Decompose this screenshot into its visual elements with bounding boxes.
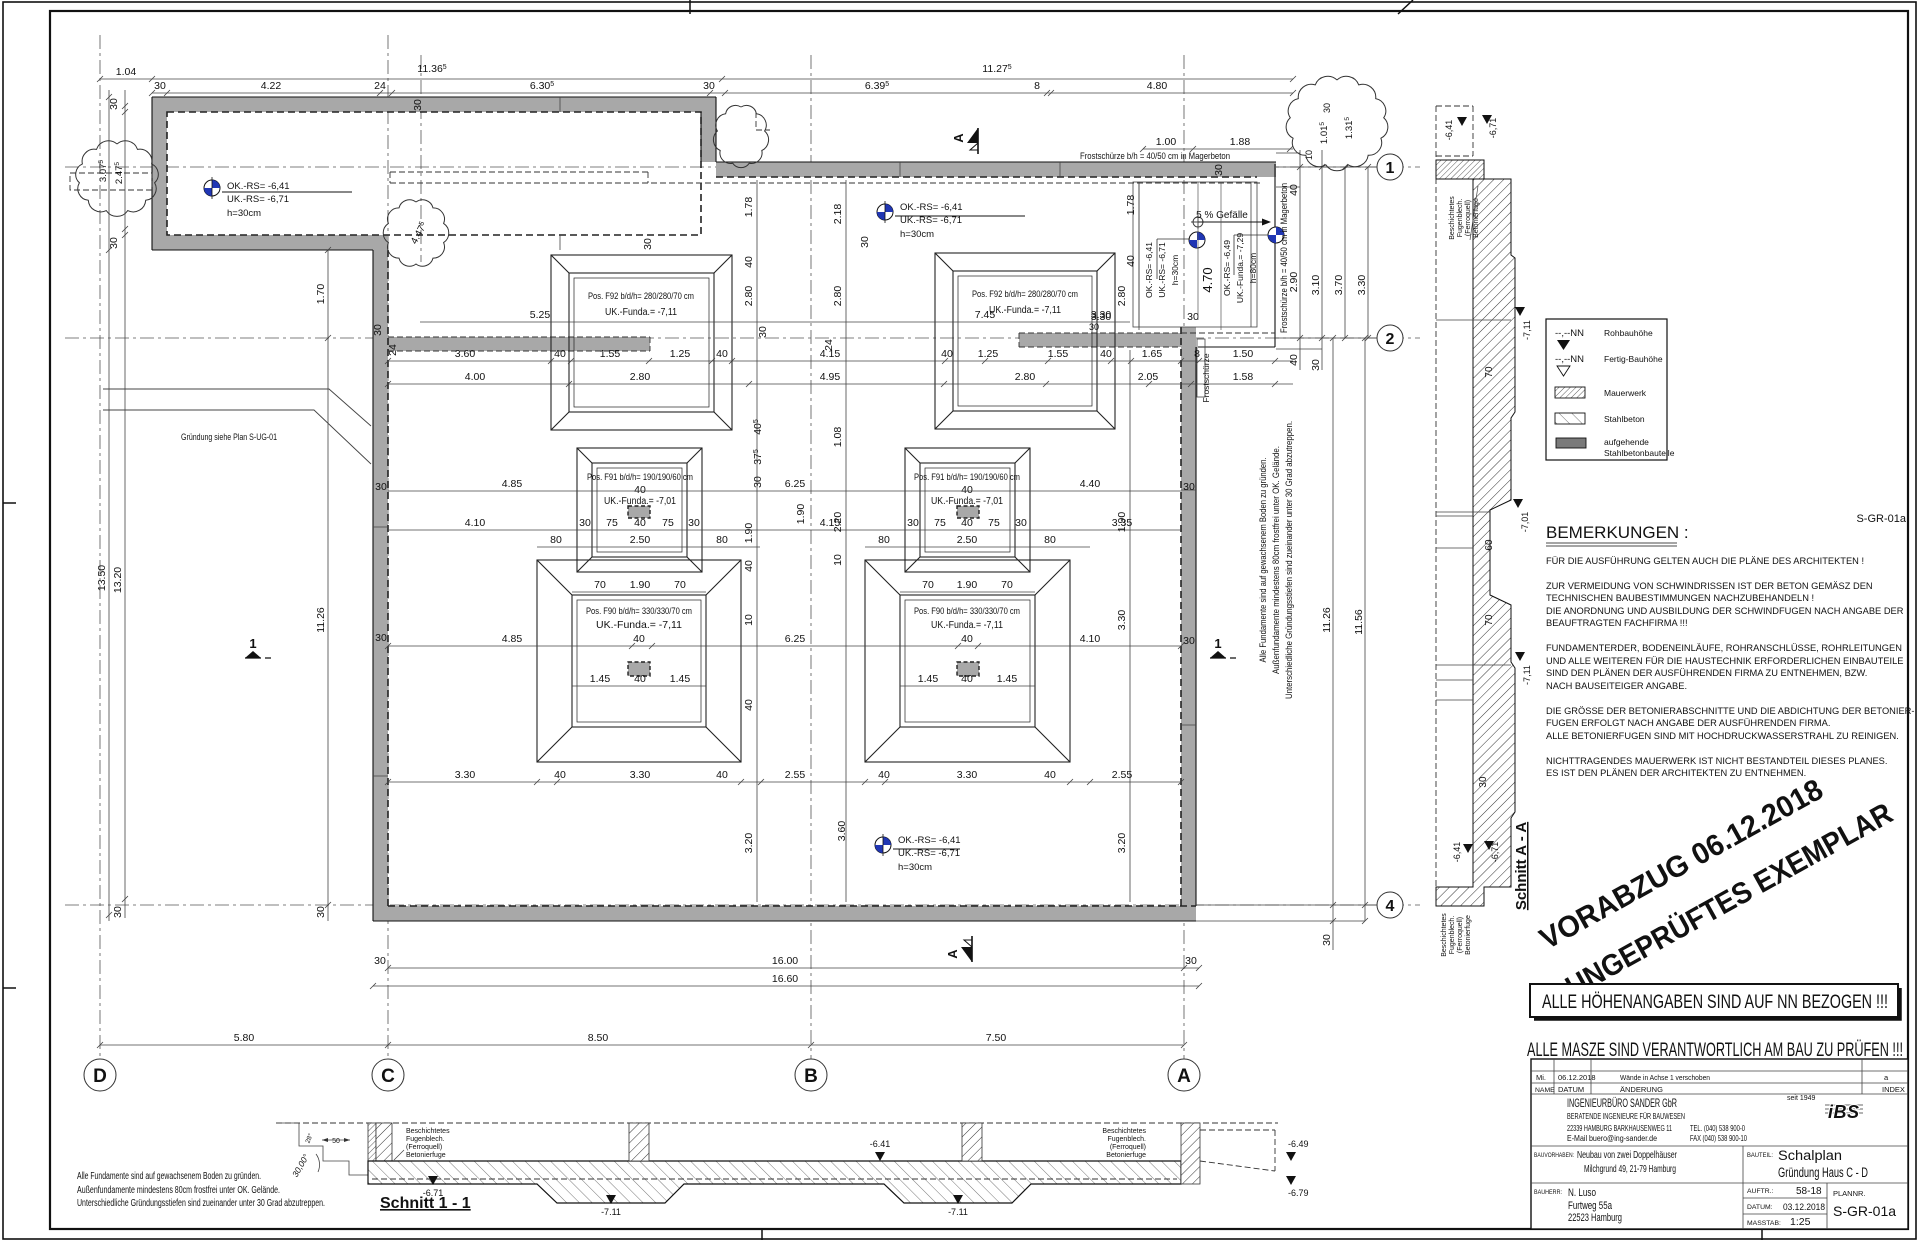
gully symbol [1191,215,1205,229]
svg-text:24: 24 [374,80,386,92]
svg-text:10: 10 [743,614,755,626]
dim labels left stack [108,98,120,110]
svg-text:seit 1949: seit 1949 [1787,1095,1816,1102]
svg-text:ALLE BETONIERFUGEN SIND MIT HO: ALLE BETONIERFUGEN SIND MIT HOCHDRUCKWAS… [1546,731,1899,741]
right of plan dim stack verticals [1299,150,1301,370]
svg-text:2.80: 2.80 [1116,286,1128,307]
row ticks 384 [385,381,1278,387]
section A-A left wall notches [1436,516,1473,700]
in-plan dim row y384 [388,383,1293,385]
svg-text:D: D [93,1066,107,1087]
svg-text:UK.-RS= -6,71: UK.-RS= -6,71 [1157,242,1167,298]
svg-text:1.50: 1.50 [1233,348,1254,360]
axis 4 horizontal [65,904,1420,906]
bottom dim 16.60 [373,985,1199,987]
svg-text:Betonierfuge: Betonierfuge [1106,1152,1146,1159]
svg-text:1.90: 1.90 [1116,512,1128,533]
frostschuerze note rotated right [1279,183,1290,333]
svg-text:Gründung Haus C - D: Gründung Haus C - D [1778,1165,1868,1180]
column F91 right [957,506,979,518]
svg-text:30: 30 [412,99,424,111]
svg-text:7.45: 7.45 [975,309,996,321]
svg-text:A: A [1177,1066,1191,1087]
svg-text:4.95: 4.95 [820,371,841,383]
svg-text:Pos. F90 b/d/h= 330/330/70 cm: Pos. F90 b/d/h= 330/330/70 cm [586,606,692,617]
svg-text:75: 75 [988,517,1000,529]
svg-text:75: 75 [934,517,946,529]
svg-text:PLANNR.: PLANNR. [1833,1189,1866,1198]
svg-text:30: 30 [1478,776,1489,788]
svg-text:5 % Gefälle: 5 % Gefälle [1196,210,1248,221]
svg-text:UK.-Funda.= -7,11: UK.-Funda.= -7,11 [605,307,677,318]
svg-text:Pos. F91 b/d/h= 190/190/60 cm: Pos. F91 b/d/h= 190/190/60 cm [587,472,693,483]
column F91 left [628,506,650,518]
svg-text:UK.-RS= -6,71: UK.-RS= -6,71 [227,194,289,205]
svg-text:FÜR DIE AUSFÜHRUNG GELTEN AUCH: FÜR DIE AUSFÜHRUNG GELTEN AUCH DIE PLÄNE… [1546,556,1864,566]
level text bay rotated 1 [1144,242,1154,298]
svg-text:-7.11: -7.11 [948,1207,968,1217]
axis circle 2 [1377,325,1403,351]
svg-text:30: 30 [579,517,591,529]
svg-text:10: 10 [832,554,844,566]
svg-text:30: 30 [1183,635,1195,647]
svg-text:1: 1 [1386,160,1395,177]
title block bauvorhaben row [1531,1146,1908,1183]
dim labels rotated column x846 [832,204,844,225]
top dim row 2 [152,92,1293,94]
svg-text:30: 30 [108,98,120,110]
axis A vertical [1183,55,1185,1062]
title block bottom rows [1743,1183,1827,1229]
svg-text:30: 30 [752,476,764,488]
title block frame [1531,1059,1908,1229]
svg-text:60: 60 [1484,539,1495,551]
svg-text:80: 80 [716,534,728,546]
svg-text:Unterschiedliche Gründungsstie: Unterschiedliche Gründungsstiefen sind z… [77,1198,325,1209]
svg-text:1:25: 1:25 [1790,1216,1811,1228]
svg-text:1.58: 1.58 [1233,371,1254,383]
ramp lines left [103,389,371,464]
svg-text:30: 30 [112,906,124,918]
svg-text:UND ALLE WEITEREN FÜR DIE HAUS: UND ALLE WEITEREN FÜR DIE HAUSTECHNIK ER… [1546,656,1903,666]
legend stahlbeton [1555,413,1585,424]
level text top middle [895,202,1025,240]
axis B vertical [810,55,812,1062]
svg-text:30: 30 [688,517,700,529]
svg-text:40: 40 [743,560,755,572]
bottom dim 16.00 [388,967,1199,969]
foundation strip dashed axis1 left [390,172,1261,183]
in-plan dim row y686 [572,685,706,687]
svg-text:24: 24 [823,339,835,351]
svg-text:C: C [381,1066,395,1087]
revision cloud 4.47 [383,200,449,266]
svg-text:40: 40 [554,769,566,781]
bottom axis dim 5.80 8.50 7.50 [100,1044,1184,1046]
section A-A top level labels [1444,120,1454,141]
svg-text:4.10: 4.10 [465,517,486,529]
svg-text:3.60: 3.60 [836,821,848,842]
section A-A dashed boundary [1436,106,1473,902]
svg-text:5.80: 5.80 [234,1032,255,1044]
svg-text:Fugenblech.: Fugenblech. [1457,199,1464,238]
axis 1 horizontal [65,166,1420,168]
svg-text:Betonierfuge: Betonierfuge [1465,915,1472,955]
svg-text:30: 30 [1015,517,1027,529]
schnitt11 slab bottom dashed inner line [372,1178,1177,1180]
bay dim line vertical [1138,182,1140,330]
svg-text:Pos. F92 b/d/h= 280/280/70 cm: Pos. F92 b/d/h= 280/280/70 cm [588,291,694,302]
schnitt11 interior wall stubs [629,1123,649,1161]
leader lines bay [1157,235,1268,279]
schnitt11 fugenblech note [406,1128,450,1159]
svg-text:03.12.2018: 03.12.2018 [1783,1202,1825,1213]
row ticks 361 [385,358,1278,364]
column F90 right [957,662,979,676]
legend box [1546,319,1667,460]
svg-text:DIE ANORDNUNG UND AUSBILDUNG D: DIE ANORDNUNG UND AUSBILDUNG DER SCHWIND… [1546,606,1904,616]
column F90 left [628,662,650,676]
svg-text:Betonierfuge: Betonierfuge [406,1152,446,1159]
svg-text:NAME: NAME [1535,1087,1555,1094]
svg-text:2.20: 2.20 [832,512,844,533]
svg-text:13.20: 13.20 [112,567,124,593]
section marker 1 left [245,636,271,658]
svg-text:11.56: 11.56 [1353,609,1365,635]
svg-text:40: 40 [716,769,728,781]
svg-text:1.90: 1.90 [957,579,978,591]
svg-text:6.25: 6.25 [785,478,806,490]
section marker 1 right [1210,636,1236,658]
svg-text:40: 40 [878,769,890,781]
svg-text:30: 30 [1310,359,1322,371]
dim labels garage wall small [372,324,384,336]
svg-text:4.80: 4.80 [1147,80,1168,92]
svg-text:11.275: 11.275 [982,63,1012,75]
schnitt11 level marks [428,1176,438,1185]
wall axis1 long [716,162,1276,177]
svg-text:30: 30 [1187,311,1199,323]
svg-text:3.20: 3.20 [1116,833,1128,854]
svg-text:1.45: 1.45 [670,673,691,685]
svg-text:h=80cm: h=80cm [1248,253,1258,283]
svg-text:1.90: 1.90 [630,579,651,591]
pad F90 right [865,560,1070,762]
svg-text:40: 40 [743,699,755,711]
svg-text:-7,11: -7,11 [1522,320,1532,340]
svg-text:2.80: 2.80 [743,286,755,307]
svg-text:30: 30 [374,955,386,967]
svg-text:h=30cm: h=30cm [1170,255,1180,285]
svg-text:75: 75 [662,517,674,529]
dim 4.70 rotated in bay [1200,267,1215,292]
survey marker bottom middle [875,834,891,856]
svg-text:OK.-RS= -6,49: OK.-RS= -6,49 [1222,240,1232,296]
pad F91 right [905,448,1030,572]
banner hoehenangaben box [1530,984,1898,1017]
axis circle C [372,1059,404,1091]
svg-text:Fugenblech.: Fugenblech. [1449,916,1456,955]
svg-text:40: 40 [743,256,755,268]
svg-text:70: 70 [674,579,686,591]
svg-text:16.00: 16.00 [772,955,798,967]
legend mauerwerk [1555,387,1585,398]
frostschuerze strip right wall [1197,339,1205,397]
svg-text:30: 30 [108,237,120,249]
in-plan vertical dim lines [756,180,758,902]
svg-text:2.80: 2.80 [832,286,844,307]
svg-text:-6,41: -6,41 [1452,842,1462,863]
schnitt11 step labels [304,1132,315,1144]
svg-text:UK.-Funda.= -7,29: UK.-Funda.= -7,29 [1235,233,1245,303]
section arrow A bottom [945,936,972,962]
svg-text:E-Mail buero@ing-sander.de: E-Mail buero@ing-sander.de [1567,1134,1657,1143]
dim labels rotated column x1130 [1116,286,1128,307]
svg-text:Unterschiedliche Gründungsstie: Unterschiedliche Gründungsstiefen sind z… [1284,421,1295,699]
wall axis 4 bottom [373,906,1196,921]
section A-A fugenblech note top [1449,196,1480,240]
svg-text:1.88: 1.88 [1230,136,1251,148]
svg-text:1.65: 1.65 [1142,348,1163,360]
svg-text:80: 80 [1044,534,1056,546]
svg-text:75: 75 [606,517,618,529]
dim labels right stacks [1288,184,1300,196]
svg-text:(Ferroquell): (Ferroquell) [1465,200,1472,236]
svg-text:2.50: 2.50 [630,534,651,546]
svg-text:3.60: 3.60 [455,348,476,360]
svg-text:ALLE MASZE SIND VERANTWORTLICH: ALLE MASZE SIND VERANTWORTLICH AM BAU ZU… [1527,1039,1903,1061]
schnitt11 top dashed line [276,1122,1278,1124]
svg-text:SIND DEN PLÄNEN DER AUSFÜHREND: SIND DEN PLÄNEN DER AUSFÜHRENDEN FIRMA Z… [1546,668,1867,678]
in-plan dim row y782 [388,781,1181,783]
wall interior dashed garage [167,112,701,235]
in-plan dim row y547 [537,546,760,548]
svg-text:1.45: 1.45 [997,673,1018,685]
svg-text:30: 30 [642,238,654,250]
svg-text:Pos. F91 b/d/h= 190/190/60 cm: Pos. F91 b/d/h= 190/190/60 cm [914,472,1020,483]
svg-text:30: 30 [703,80,715,92]
svg-text:BAUHERR:: BAUHERR: [1534,1189,1562,1196]
svg-text:1.25: 1.25 [978,348,999,360]
svg-text:16.60: 16.60 [772,973,798,985]
row ticks 646 [385,643,1184,649]
svg-text:5.25: 5.25 [530,309,551,321]
svg-text:30: 30 [154,80,166,92]
svg-text:1.55: 1.55 [600,348,621,360]
right stack horizontal ticks [1297,164,1371,924]
svg-text:BEMERKUNGEN :: BEMERKUNGEN : [1546,523,1689,542]
svg-text:Pos. F90 b/d/h= 330/330/70 cm: Pos. F90 b/d/h= 330/330/70 cm [914,606,1020,617]
svg-text:30: 30 [1185,955,1197,967]
dim labels near cloud top right [1304,150,1314,160]
svg-text:UK.-RS= -6,71: UK.-RS= -6,71 [900,215,962,226]
svg-text:UK.-Funda.= -7,01: UK.-Funda.= -7,01 [931,496,1003,507]
svg-text:Pos. F92 b/d/h= 280/280/70 cm: Pos. F92 b/d/h= 280/280/70 cm [972,289,1078,300]
svg-text:AUFTR.:: AUFTR.: [1747,1188,1774,1195]
wall outlines [152,97,1276,921]
svg-text:40: 40 [1100,348,1112,360]
svg-text:ALLE HÖHENANGABEN SIND AUF NN: ALLE HÖHENANGABEN SIND AUF NN BEZOGEN !!… [1542,991,1888,1013]
svg-text:Fertig-Bauhöhe: Fertig-Bauhöhe [1604,354,1663,364]
svg-text:Mi.: Mi. [1536,1073,1546,1082]
svg-text:ES IST DEN PLÄNEN DER ARCHITEK: ES IST DEN PLÄNEN DER ARCHITEKTEN ZU ENT… [1546,768,1806,778]
svg-text:30: 30 [375,481,387,493]
svg-text:DIE GRÖSSE DER BETONIERABSCHNI: DIE GRÖSSE DER BETONIERABSCHNITTE UND DI… [1546,706,1914,716]
schnitt11 slab hatched [368,1161,1181,1203]
svg-text:70: 70 [1484,366,1495,378]
fold tick bottom edge [761,1229,763,1240]
svg-text:ZUR VERMEIDUNG VON SCHWINDRISS: ZUR VERMEIDUNG VON SCHWINDRISSEN IST DER… [1546,581,1873,591]
svg-text:1: 1 [249,636,256,651]
svg-text:2.55: 2.55 [785,769,806,781]
in-plan dim row y491 [388,490,1181,492]
svg-text:3.30: 3.30 [630,769,651,781]
svg-text:1.04: 1.04 [116,66,137,78]
svg-text:Beschichtetes: Beschichtetes [1102,1128,1146,1135]
svg-text:8: 8 [1034,80,1040,92]
svg-text:50: 50 [332,1138,340,1145]
svg-text:-7.11: -7.11 [601,1207,621,1217]
svg-text:11.26: 11.26 [1321,607,1333,633]
frostschuerze box below bay [1133,182,1257,327]
svg-text:40: 40 [634,517,646,529]
section A-A fugenblech note bottom [1441,913,1472,957]
row ticks 782 [385,779,1184,785]
svg-text:Frostschürze b/h = 40/50 cm in: Frostschürze b/h = 40/50 cm in Magerbeto… [1279,183,1290,333]
svg-text:OK.-RS= -6,41: OK.-RS= -6,41 [1144,242,1154,298]
svg-text:4: 4 [1386,898,1395,915]
svg-text:30: 30 [1213,164,1225,176]
svg-text:1.78: 1.78 [1125,195,1137,216]
axis 2 horizontal [65,337,1420,339]
svg-text:A: A [945,949,960,959]
svg-text:70: 70 [1001,579,1013,591]
svg-text:2.05: 2.05 [1138,371,1159,383]
revision cloud 1.01 top [713,105,768,167]
svg-text:30: 30 [1089,322,1099,332]
in-plan dim row y361 [388,360,1293,362]
wall axis2 piece right [1019,333,1181,347]
svg-text:2.18: 2.18 [832,204,844,225]
svg-text:30: 30 [1322,103,1332,113]
survey marker bay right [1268,227,1284,243]
svg-text:N. Luso: N. Luso [1568,1187,1596,1199]
section A-A main hatched wall [1436,179,1515,906]
svg-text:B: B [804,1066,818,1087]
axis circle D [84,1059,116,1091]
svg-text:S-GR-01a: S-GR-01a [1856,513,1906,525]
svg-text:NICHTTRAGENDES MAUERWERK IST N: NICHTTRAGENDES MAUERWERK IST NICHT BESTA… [1546,756,1887,766]
axis D vertical [99,35,101,1062]
svg-text:-6.79: -6.79 [1288,1188,1309,1198]
svg-text:2.50: 2.50 [957,534,978,546]
schnitt11 left steps [276,1123,368,1175]
top dim row 1 [100,78,1293,80]
wall axis A right [1181,327,1196,906]
title block revision rows [1531,1059,1908,1094]
svg-text:40: 40 [961,633,973,645]
wall axis2 dashed edges [388,333,1275,351]
svg-text:BAUVORHABEN:: BAUVORHABEN: [1534,1152,1574,1159]
svg-text:6.25: 6.25 [785,633,806,645]
svg-text:4.40: 4.40 [1080,478,1101,490]
svg-text:Schnitt 1 - 1: Schnitt 1 - 1 [380,1195,471,1212]
in-plan dim row y592 [572,591,706,593]
left dim 1.70/11.26 line [327,250,329,921]
svg-text:40: 40 [961,673,973,685]
pad F92 right [935,253,1115,429]
axis circle 4 [1377,892,1403,918]
svg-text:aufgehende: aufgehende [1604,437,1649,447]
wall axis2 piece left [388,337,650,351]
axis circle 1 [1377,154,1403,180]
survey marker garage [204,177,220,199]
svg-text:Rohbauhöhe: Rohbauhöhe [1604,328,1653,338]
svg-text:FUGEN ERFOLGT NACH ANGABE DER: FUGEN ERFOLGT NACH ANGABE DER AUSFÜHREND… [1546,718,1830,728]
svg-text:1: 1 [1214,636,1221,651]
svg-text:Beschichtetes: Beschichtetes [1449,196,1456,240]
svg-text:30: 30 [372,324,384,336]
svg-text:3.30: 3.30 [455,769,476,781]
svg-text:S-GR-01a: S-GR-01a [1833,1203,1896,1219]
svg-text:3.70: 3.70 [1333,275,1345,296]
svg-text:-6,41: -6,41 [1444,120,1454,141]
wall garage left [152,97,167,250]
svg-text:2.80: 2.80 [1015,371,1036,383]
section A-A level marks right [1515,307,1525,316]
svg-text:--,--NN: --,--NN [1555,328,1584,339]
revision cloud big top right [1286,76,1388,170]
svg-text:--,--NN: --,--NN [1555,354,1584,365]
svg-text:Beschichtetes: Beschichtetes [1441,913,1448,957]
svg-text:ÄNDERUNG: ÄNDERUNG [1620,1085,1663,1094]
svg-text:Frostschürze b/h = 40/50 cm in: Frostschürze b/h = 40/50 cm in Magerbeto… [1080,151,1230,162]
svg-text:TECHNISCHEN BAUBESTIMMUNGEN NA: TECHNISCHEN BAUBESTIMMUNGEN NACHZUBEHAND… [1546,593,1814,603]
schnitt11 fugenblech note right [1102,1128,1146,1159]
svg-text:Mauerwerk: Mauerwerk [1604,388,1647,398]
svg-text:1.90: 1.90 [743,523,755,544]
svg-text:80: 80 [550,534,562,546]
dashed neighbour wall stub left [70,173,152,190]
svg-text:2.55: 2.55 [1112,769,1133,781]
svg-text:40: 40 [716,348,728,360]
svg-text:A: A [951,133,966,143]
svg-text:UK.-RS= -6,71: UK.-RS= -6,71 [898,848,960,859]
svg-text:70: 70 [922,579,934,591]
schnitt11 left wall stub [368,1123,376,1175]
svg-text:1.55: 1.55 [1048,348,1069,360]
schnitt11 right end [1181,1123,1200,1184]
svg-text:1.25: 1.25 [670,348,691,360]
svg-text:40: 40 [961,517,973,529]
svg-text:Alle Fundamente sind auf gewac: Alle Fundamente sind auf gewachsenem Bod… [1258,458,1269,663]
fold mark top right diagonal [1398,0,1413,14]
svg-text:DATUM: DATUM [1558,1085,1584,1094]
svg-text:Außenfundamente mindestens 80c: Außenfundamente mindestens 80cm frostfre… [77,1185,280,1196]
svg-text:Stahlbetonbauteile: Stahlbetonbauteile [1604,448,1675,458]
axis circle A [1168,1059,1200,1091]
section A-A floor lines [1436,320,1511,665]
svg-text:40: 40 [1288,354,1300,366]
left dim stack lines [108,90,110,921]
svg-text:Beschichtetes: Beschichtetes [406,1128,450,1135]
section A-A title [1513,822,1530,910]
svg-text:Furtweg 55a: Furtweg 55a [1568,1200,1613,1212]
svg-text:58-18: 58-18 [1796,1186,1822,1197]
wall garage bottom [152,235,388,250]
legend aufgehende stahlbetonbauteile [1556,438,1586,448]
level text bay rotated 2 [1222,240,1232,296]
